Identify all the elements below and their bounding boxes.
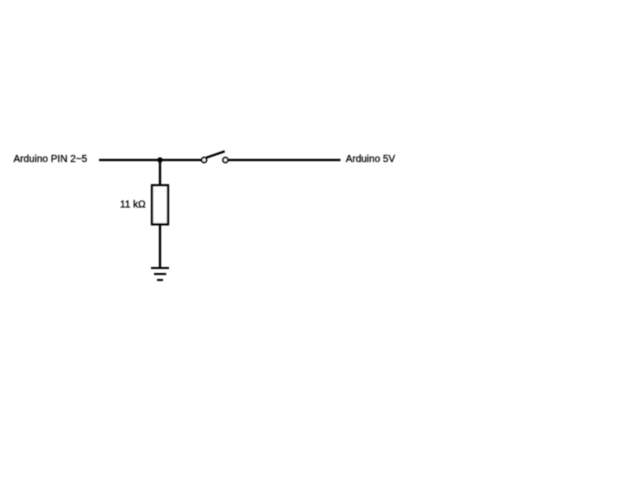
ground symbol — [151, 268, 169, 280]
wire: resistor bottom to ground — [159, 224, 161, 268]
switch S1: lever arm — [206, 151, 225, 157]
switch S1: left contact circle — [202, 158, 207, 163]
svg-text:Arduino 5V: Arduino 5V — [346, 154, 396, 165]
svg-text:11 kΩ: 11 kΩ — [120, 200, 146, 211]
switch S1: right contact circle — [223, 158, 228, 163]
node A: junction dot — [157, 157, 162, 162]
wire: switch to 5V label — [229, 159, 341, 161]
wire: left segment from PIN label to switch — [99, 159, 201, 161]
svg-text:Arduino PIN 2~5: Arduino PIN 2~5 — [14, 154, 88, 165]
wire: junction down to resistor top — [159, 160, 161, 186]
resistor R1 body — [152, 185, 168, 224]
